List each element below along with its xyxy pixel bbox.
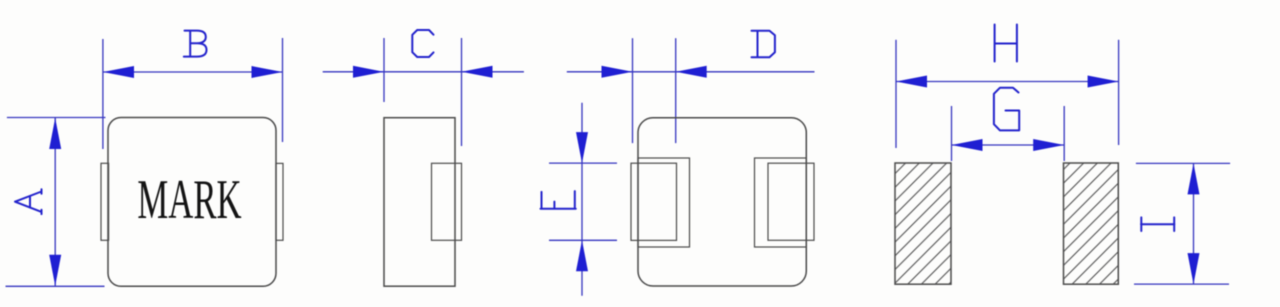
svg-text:MARK: MARK xyxy=(137,169,241,232)
